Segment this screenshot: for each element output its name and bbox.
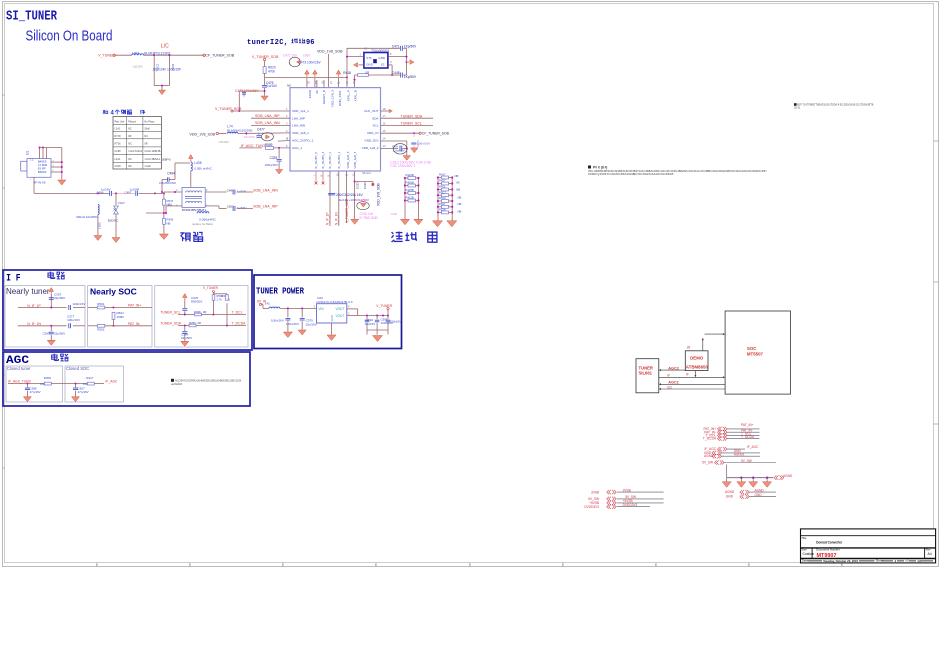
- svg-text:R30Cy2C87C3A6C35A034BC3C322C3A: R30Cy2C87C3A6C35A034BC3C322C3A2C3C4528: [588, 173, 674, 176]
- svg-text:3VSB: 3VSB: [623, 488, 631, 492]
- svg-text:C198: C198: [115, 150, 122, 153]
- svg-text:IF_AGC_TUN3: IF_AGC_TUN3: [241, 144, 265, 148]
- svg-text:of: of: [905, 559, 908, 563]
- svg-text:0.056 uH/NC: 0.056 uH/NC: [194, 166, 212, 170]
- svg-text:R417: R417: [439, 173, 446, 177]
- svg-text:PAT_IN-: PAT_IN-: [128, 322, 141, 326]
- svg-text:1.0n0 4B3u1d: 1.0n0 4B3u1d: [144, 158, 160, 161]
- svg-text:C448: C448: [392, 71, 400, 75]
- svg-text:X2: X2: [381, 63, 385, 67]
- svg-text:EPAD: EPAD: [308, 89, 312, 98]
- svg-text:0R: 0R: [128, 135, 131, 138]
- svg-text:Nearly SOC: Nearly SOC: [90, 287, 137, 297]
- svg-text:VDD_1p8_2: VDD_1p8_2: [362, 146, 379, 150]
- svg-text:RF-IN-05: RF-IN-05: [33, 181, 46, 185]
- svg-text:GND: GND: [726, 495, 734, 499]
- svg-text:R411: R411: [439, 185, 446, 189]
- svg-text:100n16V: 100n16V: [390, 320, 402, 324]
- svg-text:TUNER_SCL: TUNER_SCL: [401, 122, 422, 126]
- svg-text:Placed: Placed: [128, 120, 136, 123]
- svg-text:P# X (8 #): P# X (8 #): [593, 166, 607, 170]
- svg-text:GND: GND: [330, 315, 334, 321]
- svg-text:(115.8M): (115.8M): [219, 140, 229, 144]
- svg-text:100n/16V: 100n/16V: [73, 302, 86, 306]
- svg-text:-: -: [30, 178, 31, 182]
- svg-text:VDD_1V8_SOB: VDD_1V8_SOB: [377, 183, 381, 206]
- svg-text:T_I2CDA: T_I2CDA: [232, 322, 247, 326]
- svg-text:V_TUNER: V_TUNER: [98, 54, 115, 58]
- svg-text:V_TUNER: V_TUNER: [376, 304, 392, 308]
- svg-text:tunerI2C,: tunerI2C,: [247, 39, 288, 47]
- svg-text:Size: Size: [801, 548, 807, 552]
- svg-text:R502: R502: [97, 328, 105, 332]
- svg-text:N_IF_1P: N_IF_1P: [326, 212, 330, 225]
- svg-text:NB: NB: [458, 195, 462, 199]
- svg-text:C325: C325: [270, 156, 278, 160]
- svg-text:R421B: R421B: [406, 196, 414, 200]
- svg-text:CF_TUNER_SOB: CF_TUNER_SOB: [422, 132, 450, 136]
- svg-text:VIN: VIN: [318, 307, 324, 311]
- svg-text:SOC: SOC: [747, 346, 757, 351]
- svg-text:R51A: R51A: [439, 208, 446, 212]
- svg-text:100R: 100R: [117, 315, 125, 319]
- svg-text:DXW21BN7052TL: DXW21BN7052TL: [182, 208, 207, 212]
- svg-text:AGC30476C3C3P8K31A14863I336133: AGC30476C3C3P8K31A14863I336133631A14863I…: [175, 379, 242, 382]
- svg-text:L1A1: L1A1: [115, 158, 121, 161]
- svg-text:14: 14: [917, 559, 921, 563]
- svg-text:3VSB: 3VSB: [591, 490, 599, 494]
- svg-text:Ø: Ø: [687, 345, 690, 350]
- svg-text:AGND: AGND: [725, 490, 735, 494]
- svg-text:IF_OUTP_2: IF_OUTP_2: [314, 152, 318, 169]
- svg-text:R718: R718: [115, 135, 122, 138]
- svg-text:0.8p/50V/NC: 0.8p/50V/NC: [159, 181, 177, 185]
- svg-text:LNA_INN: LNA_INN: [292, 124, 305, 128]
- svg-text:1u/16V: 1u/16V: [267, 84, 278, 88]
- svg-text:1Kp/50V: 1Kp/50V: [404, 75, 417, 79]
- svg-text:CLK_OUT: CLK_OUT: [364, 109, 378, 113]
- svg-text:GND: GND: [391, 212, 399, 216]
- svg-text:C497: C497: [124, 191, 132, 195]
- svg-text:LD1117A-3.3A2S117B-3.3: LD1117A-3.3A2S117B-3.3: [317, 300, 353, 304]
- svg-text:VDD_1p8_3: VDD_1p8_3: [346, 151, 350, 168]
- svg-text:5V_SW: 5V_SW: [702, 461, 713, 465]
- svg-text:NB: NB: [455, 174, 459, 178]
- svg-text:SDA: SDA: [372, 116, 379, 120]
- svg-text:47n/16V: 47n/16V: [30, 390, 41, 394]
- svg-text:IC PAD GND: IC PAD GND: [360, 216, 379, 220]
- svg-text:replace for Balun: replace for Balun: [192, 222, 214, 226]
- svg-text:NC: NC: [144, 135, 148, 138]
- svg-text:IF_OUTN_1: IF_OUTN_1: [337, 152, 341, 169]
- svg-text:T3Ux000001: T3Ux000001: [371, 49, 389, 53]
- svg-text:B0T 70J7T8B3T7B3A33L3GJ7D3A 8: B0T 70J7T8B3T7B3A33L3GJ7D3A 8 5GJ331G6U8…: [797, 103, 874, 107]
- svg-text:DVDD3V3: DVDD3V3: [623, 503, 638, 507]
- svg-text:VDD_1p1_1: VDD_1p1_1: [292, 109, 309, 113]
- svg-text:C494: C494: [167, 172, 175, 176]
- svg-text:Custom: Custom: [803, 552, 815, 556]
- svg-text:ESD/NC: ESD/NC: [108, 219, 119, 223]
- svg-text:R559: R559: [265, 143, 273, 147]
- svg-text:SOB_LNA_INN: SOB_LNA_INN: [255, 121, 280, 125]
- svg-text:AGC_2/GPO_1: AGC_2/GPO_1: [292, 139, 314, 143]
- svg-text:C496: C496: [96, 191, 104, 195]
- svg-text:10u/16V: 10u/16V: [306, 322, 317, 326]
- svg-text:NC: NC: [128, 142, 132, 145]
- svg-text:0R: 0R: [203, 310, 207, 314]
- svg-text:26o0: 26o0: [144, 128, 150, 131]
- svg-text:B4063: B4063: [38, 170, 47, 174]
- svg-text:VDD_1V8_3: VDD_1V8_3: [330, 90, 334, 107]
- svg-text:R5C7: R5C7: [439, 190, 446, 194]
- svg-text:NB: NB: [167, 222, 171, 226]
- svg-text:XTAL_P: XTAL_P: [346, 90, 350, 101]
- svg-text:IF_OUTP_1: IF_OUTP_1: [328, 152, 332, 169]
- svg-text:VOUT: VOUT: [335, 314, 344, 318]
- svg-text:NB: NB: [458, 210, 462, 214]
- svg-text:L41: L41: [265, 302, 270, 306]
- svg-text:L1A1: L1A1: [115, 128, 121, 131]
- svg-text:C313: C313: [355, 182, 359, 189]
- svg-text:84C,280P8CMP403C3F4B33C3C3F3B3: 84C,280P8CMP403C3F4B33C3C3F3B3T1A1C4BB1C…: [588, 170, 766, 173]
- svg-text:100n/16V: 100n/16V: [265, 163, 279, 167]
- svg-text:IF_AGC: IF_AGC: [747, 445, 759, 449]
- svg-text:AGC1: AGC1: [668, 381, 679, 385]
- svg-text:DNI/50V: DNI/50V: [191, 300, 202, 304]
- svg-text:VOUT: VOUT: [335, 307, 344, 311]
- svg-text:ATBM8650: ATBM8650: [686, 364, 709, 369]
- svg-text:PAT_IN+: PAT_IN+: [741, 423, 754, 427]
- svg-text:TUNER_SDA: TUNER_SDA: [160, 322, 181, 326]
- svg-text:NC: NC: [128, 128, 132, 131]
- svg-text:L/C: L/C: [161, 44, 169, 50]
- svg-text:100n/16V: 100n/16V: [271, 319, 284, 323]
- svg-text:R501: R501: [97, 302, 105, 306]
- svg-text:22p/50V: 22p/50V: [54, 332, 65, 336]
- svg-text:1u/50V: 1u/50V: [237, 206, 247, 210]
- svg-text:NC: NC: [128, 165, 132, 168]
- svg-text:MT5507: MT5507: [747, 351, 764, 356]
- svg-text:C318: C318: [115, 165, 122, 168]
- svg-text:R418: R418: [343, 71, 351, 75]
- svg-text:C310: C310: [363, 182, 367, 189]
- svg-text:CF_TUNER_SOB: CF_TUNER_SOB: [205, 54, 234, 58]
- svg-text:PAT_IN+: PAT_IN+: [128, 304, 141, 308]
- svg-text:SCL: SCL: [372, 124, 378, 128]
- svg-text:10u/16V: 10u/16V: [244, 135, 255, 139]
- svg-text:BLM18AG102SN1: BLM18AG102SN1: [227, 128, 253, 132]
- svg-text:V317: V317: [118, 201, 125, 205]
- svg-text:470k: 470k: [268, 70, 275, 74]
- svg-text:IF: IF: [667, 374, 670, 378]
- svg-text:C3C 100n/16V 1: C3C 100n/16V 1: [390, 164, 415, 168]
- svg-text:Tuesday, October 20, 2015: Tuesday, October 20, 2015: [823, 559, 858, 563]
- svg-text:R54C: R54C: [439, 196, 446, 200]
- svg-text:IF_AGC: IF_AGC: [106, 380, 119, 384]
- svg-text:(111393): (111393): [133, 65, 143, 69]
- svg-text:0.056uH/NC: 0.056uH/NC: [199, 218, 216, 222]
- svg-text:DEMO: DEMO: [690, 356, 704, 361]
- svg-text:100n/15F: 100n/15F: [167, 68, 181, 72]
- svg-text:0R: 0R: [144, 142, 147, 145]
- svg-text:330nH 1210/5%: 330nH 1210/5%: [76, 215, 98, 219]
- svg-text:SOB_LNA_INN: SOB_LNA_INN: [253, 189, 278, 193]
- svg-text:A4: A4: [928, 552, 932, 556]
- svg-text:I F: I F: [6, 272, 21, 284]
- svg-text:SI_TUNER: SI_TUNER: [6, 10, 58, 25]
- svg-text:N_IF_1N: N_IF_1N: [334, 212, 338, 225]
- svg-text:L303: L303: [132, 51, 139, 55]
- svg-text:NB: NB: [458, 202, 462, 206]
- svg-text:AGC_1: AGC_1: [292, 146, 302, 150]
- svg-text:Silicon On Board: Silicon On Board: [26, 29, 113, 45]
- svg-text:NB: NB: [456, 188, 460, 192]
- svg-text:L408: L408: [194, 161, 201, 165]
- svg-text:AGC2: AGC2: [668, 366, 679, 370]
- svg-text:T_I2CDA: T_I2CDA: [741, 435, 755, 439]
- svg-text:I2C: I2C: [667, 386, 673, 390]
- svg-text:GND_XTAL: GND_XTAL: [338, 90, 342, 106]
- svg-text:GND: GND: [378, 56, 386, 60]
- svg-text:U1: U1: [26, 151, 30, 155]
- svg-text:Title: Title: [801, 536, 807, 540]
- svg-text:R425B: R425B: [406, 188, 414, 192]
- svg-text:Demod Converter: Demod Converter: [816, 539, 842, 544]
- svg-text:5V_SW: 5V_SW: [741, 459, 752, 463]
- svg-text:R427: R427: [439, 179, 446, 183]
- svg-text:A0: A0: [315, 90, 319, 94]
- svg-text:R424B: R424B: [406, 173, 414, 177]
- svg-text:AGND: AGND: [755, 488, 765, 492]
- svg-text:LNA_INP: LNA_INP: [292, 116, 305, 120]
- svg-text:C473 100n/16V: C473 100n/16V: [299, 61, 322, 65]
- svg-text:1Kp/50V: 1Kp/50V: [404, 44, 417, 48]
- svg-text:N_IF_1N: N_IF_1N: [27, 322, 41, 326]
- svg-text:SIL661: SIL661: [639, 371, 653, 376]
- svg-text:220/C312/22u 16V: 220/C312/22u 16V: [336, 193, 363, 197]
- svg-text:C477: C477: [257, 128, 265, 132]
- svg-text:VDD_1p8_4: VDD_1p8_4: [353, 151, 357, 168]
- svg-text:10k: 10k: [40, 382, 45, 386]
- svg-text:1.0uF: 1.0uF: [144, 165, 151, 168]
- svg-text:IF: IF: [686, 373, 689, 377]
- svg-text:0R: 0R: [198, 321, 202, 325]
- svg-text:Rev: Rev: [926, 548, 932, 552]
- svg-text:1.0u0 100n0: 1.0u0 100n0: [128, 150, 143, 153]
- svg-text:VDD_1p8_1: VDD_1p8_1: [292, 131, 309, 135]
- svg-text:47n/16V: 47n/16V: [78, 390, 89, 394]
- svg-text:GND_DIG: GND_DIG: [364, 139, 379, 143]
- svg-text:VDD_IO: VDD_IO: [367, 131, 379, 135]
- svg-text:IF_OUTN_2: IF_OUTN_2: [321, 152, 325, 169]
- svg-text:10p/10M: 10p/10M: [152, 68, 165, 72]
- svg-text:DVDD3V3: DVDD3V3: [584, 505, 599, 509]
- svg-text:AGND: AGND: [783, 474, 793, 478]
- svg-text:Document Number: Document Number: [816, 548, 840, 552]
- svg-text:100n/16V: 100n/16V: [67, 318, 80, 322]
- svg-text:R317: R317: [86, 376, 94, 380]
- svg-text:C471: C471: [392, 44, 400, 48]
- svg-text:N6: N6: [287, 84, 291, 88]
- svg-text:C472 1n0: C472 1n0: [283, 54, 297, 58]
- svg-text:TUNER_SDA: TUNER_SDA: [401, 114, 423, 118]
- svg-text:1.0u/16V: 1.0u/16V: [393, 149, 405, 153]
- svg-text:R396: R396: [194, 310, 201, 314]
- svg-text:R426B: R426B: [406, 181, 414, 185]
- svg-text:VDD_1V8_SOB: VDD_1V8_SOB: [317, 50, 343, 54]
- svg-text:V_TUNER_SOB: V_TUNER_SOB: [345, 200, 349, 223]
- svg-text:TUNER_SCL: TUNER_SCL: [160, 311, 180, 315]
- svg-text:No Place: No Place: [144, 120, 155, 123]
- svg-text:XTAL_N: XTAL_N: [354, 90, 358, 101]
- svg-text:10u/16V: 10u/16V: [364, 322, 375, 326]
- svg-text:NC: NC: [128, 158, 132, 161]
- svg-text:GND: GND: [366, 63, 374, 67]
- svg-text:T_I2CL: T_I2CL: [232, 311, 243, 315]
- svg-text:XT1: XT1: [366, 56, 372, 60]
- svg-text:SOB_LNA_INP: SOB_LNA_INP: [255, 114, 280, 118]
- svg-text:BLM18PG121SN1: BLM18PG121SN1: [144, 51, 170, 55]
- svg-text:10k: 10k: [83, 382, 88, 386]
- svg-text:R736: R736: [115, 142, 122, 145]
- svg-text:22p/50V: 22p/50V: [181, 336, 192, 340]
- svg-text:0K: 0K: [456, 180, 460, 184]
- svg-text:T_I2CDA: T_I2CDA: [703, 437, 717, 441]
- svg-text:RESET_N: RESET_N: [322, 90, 326, 104]
- svg-text:Part Use: Part Use: [115, 120, 125, 123]
- svg-text:81 91: 81 91: [794, 106, 801, 109]
- svg-text:C312(50V: C312(50V: [355, 198, 370, 202]
- svg-text:Closed SOC: Closed SOC: [66, 366, 89, 371]
- svg-text:22p/50V: 22p/50V: [54, 296, 65, 300]
- svg-text:96: 96: [306, 39, 314, 47]
- svg-text:SIL4n1: SIL4n1: [362, 171, 371, 175]
- svg-text:au33a318: au33a318: [171, 383, 182, 386]
- svg-text:V_TUNER: V_TUNER: [203, 286, 219, 290]
- svg-text:4.0u0 100R1B: 4.0u0 100R1B: [144, 150, 160, 153]
- svg-text:Closed tuner: Closed tuner: [7, 366, 31, 371]
- svg-text:(BBF4): (BBF4): [162, 157, 171, 161]
- svg-text:NB0: NB0: [167, 203, 173, 207]
- svg-text:AGND1: AGND1: [734, 453, 745, 457]
- svg-text:VDD_1V8_SOB: VDD_1V8_SOB: [190, 132, 216, 136]
- svg-text:R306: R306: [44, 376, 52, 380]
- svg-text:R395: R395: [189, 321, 196, 325]
- svg-text:Nearly tuner: Nearly tuner: [6, 287, 50, 296]
- svg-text:SOB_LNA_INP: SOB_LNA_INP: [253, 205, 278, 209]
- svg-text:GND: GND: [755, 493, 763, 497]
- svg-text:100n/16V: 100n/16V: [417, 142, 431, 146]
- svg-text:R547: R547: [439, 202, 446, 206]
- svg-text:TUNER POWER: TUNER POWER: [256, 286, 304, 297]
- svg-text:AGND: AGND: [704, 454, 714, 458]
- svg-text:100n: 100n: [303, 54, 310, 58]
